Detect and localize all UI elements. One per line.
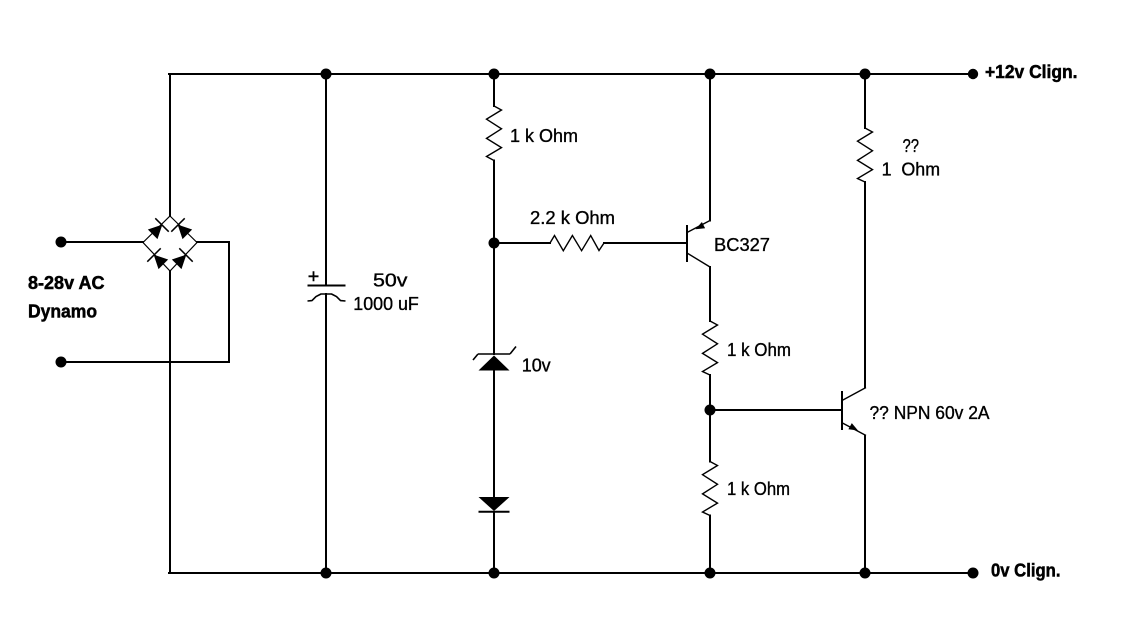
bridge rectifier diamond (143, 216, 197, 271)
bridge diode D4 bottom-right (170, 248, 193, 271)
junction dot bottom rail capacitor (321, 568, 332, 579)
junction dot top rail R5 (860, 69, 871, 80)
wire bottom 0v rail (169, 572, 973, 574)
svg-text:1000 uF: 1000 uF (353, 294, 419, 314)
diode D5 (479, 497, 510, 512)
zener diode ZD1 10v (473, 347, 516, 371)
wire bridge top to rail (169, 74, 171, 216)
bridge diode D1 top-left (146, 218, 169, 241)
terminal dot 0v (968, 568, 979, 579)
wire AC upper terminal to bridge left (61, 241, 143, 243)
bridge diode D2 top-right (171, 218, 194, 241)
svg-text:1 k Ohm: 1 k Ohm (727, 479, 790, 499)
svg-text:+12v Clign.: +12v Clign. (985, 62, 1078, 82)
transistor Q2 NPN (842, 388, 866, 436)
wire capacitor bottom lead (325, 294, 327, 573)
wire R5 top lead (864, 74, 866, 128)
svg-text:BC327: BC327 (714, 235, 770, 255)
wire bridge right to link (197, 241, 229, 243)
wire capacitor top lead (325, 74, 327, 285)
wire R1 to zener through node (493, 161, 495, 355)
wire R1 top lead (493, 74, 495, 106)
svg-text:1 k Ohm: 1 k Ohm (510, 126, 578, 146)
wire R3 to R4 through node (709, 375, 711, 462)
junction dot node zener (489, 238, 500, 249)
resistor R3 1k vertical (703, 321, 718, 375)
wire R2 to Q1 base (604, 242, 687, 244)
wire diode to bottom rail (493, 513, 495, 573)
wire node to R2 (494, 242, 550, 244)
junction dot top rail R1 (489, 69, 500, 80)
terminal dot AC lower (56, 357, 67, 368)
resistor R1 1k vertical (487, 106, 502, 161)
wire R5 to Q2 collector (864, 182, 866, 388)
junction dot node Q2 base (705, 405, 716, 416)
wire AC link vertical (228, 242, 230, 362)
wire node to Q2 base (710, 409, 841, 411)
junction dot bottom rail Q2 (860, 568, 871, 579)
wire zener to diode (493, 371, 495, 497)
svg-text:??: ?? (903, 136, 920, 156)
capacitor C1 top plate (308, 285, 346, 287)
wire Q1 collector to R3 (709, 267, 711, 321)
svg-text:?? NPN 60v 2A: ?? NPN 60v 2A (870, 403, 990, 423)
capacitor C1 curved plate (308, 294, 346, 301)
svg-text:0v Clign.: 0v Clign. (991, 561, 1061, 581)
svg-text:50v: 50v (373, 271, 408, 291)
resistor R2 2.2k horizontal (550, 236, 604, 251)
svg-text:Dynamo: Dynamo (28, 302, 97, 322)
svg-text:1 k Ohm: 1 k Ohm (727, 340, 791, 360)
wire R4 to bottom rail (709, 516, 711, 574)
junction dot bottom rail diode (489, 568, 500, 579)
wire Q2 emitter to bottom rail (864, 436, 866, 574)
wire AC lower terminal run (61, 361, 229, 363)
terminal dot +12v (968, 69, 978, 79)
wire Q1 emitter to top rail (709, 74, 711, 221)
junction dot top rail Q1 (705, 69, 716, 80)
bridge diode D3 bottom-left (147, 248, 170, 271)
wire top +12v rail (169, 73, 973, 75)
svg-text:2.2 k Ohm: 2.2 k Ohm (530, 208, 615, 228)
wire bridge bottom to rail (169, 271, 171, 573)
resistor R5 ?? 1 Ohm vertical (858, 128, 873, 182)
svg-text:1 Ohm: 1 Ohm (882, 159, 941, 179)
svg-text:10v: 10v (522, 356, 551, 376)
junction dot bottom rail R4 (705, 568, 716, 579)
resistor R4 1k vertical (703, 462, 718, 516)
terminal dot AC upper (56, 237, 67, 248)
junction dot top rail capacitor (321, 69, 332, 80)
transistor Q1 BC327 PNP (687, 221, 710, 268)
capacitor C1 plus sign (309, 271, 319, 281)
svg-text:8-28v AC: 8-28v AC (28, 273, 105, 293)
